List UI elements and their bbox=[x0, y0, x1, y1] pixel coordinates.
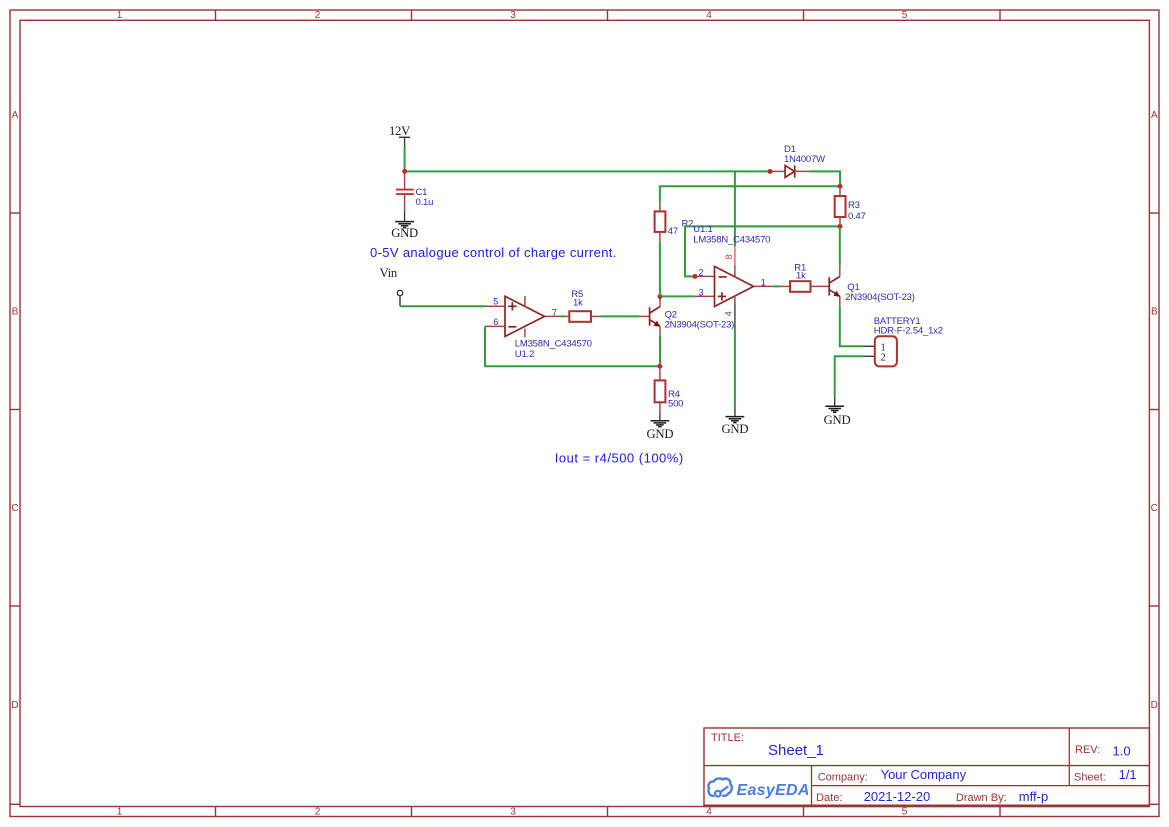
svg-text:U1.2: U1.2 bbox=[515, 349, 534, 360]
resistor R1 bbox=[780, 281, 829, 292]
resistor R5 left pin bbox=[565, 315, 569, 317]
svg-text:0.47: 0.47 bbox=[848, 211, 866, 222]
svg-text:Sheet_1: Sheet_1 bbox=[768, 742, 824, 759]
wire Q2 collector to node bbox=[659, 297, 661, 301]
svg-text:6: 6 bbox=[493, 317, 498, 327]
svg-text:1N4007W: 1N4007W bbox=[784, 154, 825, 165]
svg-text:1: 1 bbox=[117, 807, 123, 818]
svg-text:0-5V analogue control of charg: 0-5V analogue control of charge current. bbox=[370, 245, 617, 260]
op-amp U1.1 pin 4 bbox=[734, 304, 736, 326]
svg-text:R2: R2 bbox=[682, 219, 694, 230]
resistor R5 bbox=[569, 311, 600, 322]
svg-text:A: A bbox=[1151, 110, 1158, 121]
svg-text:47: 47 bbox=[668, 226, 678, 237]
svg-text:2: 2 bbox=[881, 353, 886, 364]
label R3 0.47 bbox=[848, 200, 866, 222]
svg-text:REV:: REV: bbox=[1075, 744, 1100, 756]
ground GND battery bbox=[824, 396, 851, 427]
wire Q1 collector up bbox=[839, 226, 841, 265]
svg-text:Date:: Date: bbox=[816, 792, 842, 804]
EasyEDA logo bbox=[708, 778, 809, 799]
resistor R2 bbox=[655, 202, 666, 243]
svg-text:B: B bbox=[12, 307, 19, 318]
svg-text:2: 2 bbox=[315, 807, 321, 818]
svg-text:3: 3 bbox=[699, 288, 704, 298]
ground C1 GND bbox=[391, 212, 418, 240]
svg-text:8: 8 bbox=[724, 254, 734, 259]
connector BATTERY1 bbox=[865, 336, 897, 366]
svg-text:2: 2 bbox=[699, 267, 704, 277]
label U1.2 bbox=[515, 339, 592, 360]
svg-text:7: 7 bbox=[552, 308, 557, 318]
svg-text:500: 500 bbox=[668, 399, 683, 410]
node emitter/R4 junction bbox=[657, 364, 662, 369]
power flag 12V bbox=[389, 124, 411, 147]
transistor Q1 bbox=[829, 266, 840, 306]
wire battery pin2 to GND bbox=[835, 356, 865, 396]
svg-text:LM358N_C434570: LM358N_C434570 bbox=[693, 235, 770, 246]
svg-text:5: 5 bbox=[902, 807, 908, 818]
wire Q1 emitter to battery bbox=[840, 306, 865, 347]
diode D1 bbox=[770, 165, 810, 177]
svg-text:1.0: 1.0 bbox=[1113, 744, 1131, 759]
label Q2 bbox=[665, 310, 735, 331]
wire 12V rail bbox=[405, 170, 770, 172]
node junction U1.1 pin2 bbox=[693, 274, 698, 279]
wire Vin to U1.2 pin5 bbox=[400, 305, 485, 307]
node junction 12V/C1 bbox=[402, 169, 407, 174]
node junction R3 top bbox=[838, 184, 843, 189]
wire R3 bottom feedback bbox=[685, 226, 840, 276]
label D1 1N4007W bbox=[784, 144, 825, 165]
node junction R3 bottom bbox=[838, 224, 843, 229]
wire supply to U1.1 pin8 bbox=[734, 171, 736, 246]
svg-text:Sheet:: Sheet: bbox=[1074, 772, 1106, 784]
node Q2 collector junction bbox=[657, 294, 662, 299]
label R5 1k bbox=[571, 289, 583, 308]
svg-text:2N3904(SOT-23): 2N3904(SOT-23) bbox=[845, 292, 915, 303]
label R4 500 bbox=[668, 389, 683, 409]
op-amp U1.1 pin 8 bbox=[734, 247, 736, 266]
label Q1 bbox=[845, 282, 915, 303]
label R2 47 bbox=[668, 219, 693, 237]
wire U1.2 out to R5 bbox=[561, 315, 566, 317]
svg-text:U1.1: U1.1 bbox=[693, 224, 712, 235]
wire Q2 emitter down bbox=[659, 336, 661, 367]
wire U1.1 pin4 to GND bbox=[734, 325, 736, 406]
resistor R3 bbox=[835, 186, 846, 226]
svg-text:4: 4 bbox=[724, 311, 734, 316]
wire rail to R2/R3 row bbox=[659, 243, 661, 297]
svg-text:3: 3 bbox=[510, 807, 516, 818]
svg-text:mff-p: mff-p bbox=[1019, 789, 1048, 804]
capacitor C1 bbox=[396, 171, 414, 211]
svg-text:Drawn By:: Drawn By: bbox=[956, 792, 1007, 804]
svg-text:12V: 12V bbox=[389, 124, 411, 138]
op-amp U1.2 bbox=[485, 296, 561, 337]
svg-text:5: 5 bbox=[902, 10, 908, 21]
svg-text:4: 4 bbox=[706, 807, 712, 818]
svg-text:GND: GND bbox=[824, 413, 851, 427]
svg-text:Company:: Company: bbox=[818, 772, 868, 784]
svg-text:GND: GND bbox=[391, 226, 418, 240]
transistor Q2 bbox=[640, 300, 660, 336]
svg-text:GND: GND bbox=[722, 422, 749, 436]
svg-text:1: 1 bbox=[117, 10, 123, 21]
resistor R4 bbox=[655, 366, 666, 413]
wire node to U1.1 pin3 bbox=[660, 295, 695, 297]
svg-text:4: 4 bbox=[706, 10, 712, 21]
svg-text:Iout = r4/500 (100%): Iout = r4/500 (100%) bbox=[555, 451, 684, 466]
svg-text:2N3904(SOT-23): 2N3904(SOT-23) bbox=[665, 320, 735, 331]
svg-text:Vin: Vin bbox=[380, 266, 398, 280]
svg-text:2: 2 bbox=[315, 10, 321, 21]
svg-text:Your Company: Your Company bbox=[881, 767, 967, 782]
svg-text:2021-12-20: 2021-12-20 bbox=[864, 789, 931, 804]
wire U1.1 out to R1 bbox=[774, 285, 781, 287]
svg-text:1/1: 1/1 bbox=[1119, 767, 1137, 782]
svg-text:1: 1 bbox=[761, 277, 766, 287]
wire R5 to Q2 base bbox=[601, 315, 640, 317]
svg-text:TITLE:: TITLE: bbox=[711, 732, 744, 744]
wire U1.2 pin6 feedback bbox=[485, 326, 660, 366]
svg-text:D: D bbox=[11, 700, 18, 711]
node junction D1 anode bbox=[768, 169, 773, 174]
wire R2 top to rail row bbox=[660, 186, 840, 201]
svg-text:C: C bbox=[1151, 503, 1158, 514]
label U1.1 bbox=[693, 224, 770, 246]
svg-text:0.1u: 0.1u bbox=[416, 197, 434, 208]
svg-text:HDR-F-2.54_1x2: HDR-F-2.54_1x2 bbox=[874, 326, 943, 337]
svg-text:5: 5 bbox=[493, 297, 498, 307]
svg-text:EasyEDA: EasyEDA bbox=[737, 782, 810, 799]
svg-text:R3: R3 bbox=[848, 200, 860, 211]
ground GND under U1.1 bbox=[722, 406, 749, 435]
wire 12V stem bbox=[404, 147, 406, 172]
svg-text:GND: GND bbox=[647, 427, 674, 441]
svg-text:1k: 1k bbox=[573, 297, 583, 308]
svg-text:3: 3 bbox=[510, 10, 516, 21]
svg-text:D: D bbox=[1151, 700, 1158, 711]
wire D1 cathode to R3 bbox=[810, 171, 841, 186]
svg-text:B: B bbox=[1151, 307, 1158, 318]
svg-text:C: C bbox=[11, 503, 18, 514]
label C1 value bbox=[416, 187, 434, 208]
svg-text:A: A bbox=[12, 110, 19, 121]
ground GND under R4 bbox=[647, 413, 674, 441]
op-amp U1.1 bbox=[695, 265, 774, 306]
label BATTERY1 bbox=[874, 316, 943, 337]
label R1 1k bbox=[794, 263, 806, 282]
port Vin bbox=[397, 290, 402, 306]
svg-text:1k: 1k bbox=[796, 271, 806, 282]
